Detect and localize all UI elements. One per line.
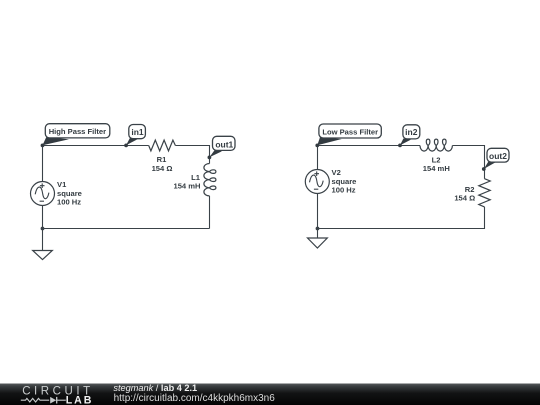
wire: V1 top lead vertical bbox=[42, 146, 44, 182]
svg-text:154 mH: 154 mH bbox=[423, 164, 450, 173]
logo diode bbox=[50, 397, 66, 404]
node flag: High Pass Filter bbox=[41, 124, 110, 148]
logo resistor zigzag bbox=[21, 398, 49, 402]
junction bottom-left (right circuit) bbox=[316, 227, 320, 231]
label L1 value bbox=[173, 173, 200, 190]
wire: L2 right lead to corner down to R2 bbox=[452, 146, 484, 179]
wire: V1 bottom lead bbox=[42, 206, 44, 229]
wire: bottom horizontal bbox=[43, 228, 210, 230]
resistor R1 bbox=[149, 140, 176, 151]
footer url text bbox=[114, 393, 276, 404]
svg-text:LAB: LAB bbox=[66, 395, 93, 405]
svg-text:in2: in2 bbox=[405, 127, 418, 137]
label V2 value bbox=[332, 168, 357, 194]
wire: V2 bottom lead bbox=[317, 194, 319, 229]
svg-text:out1: out1 bbox=[215, 139, 233, 149]
logo CIRCUIT wordmark bbox=[22, 386, 94, 398]
resistor R2 bbox=[479, 179, 490, 207]
svg-text:High Pass Filter: High Pass Filter bbox=[49, 127, 106, 136]
node flag: out2 bbox=[482, 148, 509, 171]
ground (left) bbox=[33, 229, 53, 260]
voltage source V1 bbox=[31, 182, 55, 206]
node flag: Low Pass Filter bbox=[315, 124, 381, 147]
label R2 value bbox=[454, 185, 475, 202]
svg-text:in1: in1 bbox=[131, 127, 144, 137]
svg-text:100 Hz: 100 Hz bbox=[57, 197, 81, 206]
wire: L1 bottom lead down bbox=[209, 196, 211, 229]
wire: V2 top lead vertical bbox=[317, 146, 319, 170]
svg-text:Low Pass Filter: Low Pass Filter bbox=[322, 127, 378, 136]
junction bottom-left bbox=[41, 227, 45, 231]
ground (right) bbox=[308, 229, 328, 249]
node flag: in1 bbox=[124, 125, 145, 148]
footer bar bbox=[0, 384, 540, 405]
label R1 value bbox=[152, 155, 173, 173]
svg-text:stegmank / lab 4 2.1: stegmank / lab 4 2.1 bbox=[113, 383, 197, 393]
svg-text:154 mH: 154 mH bbox=[173, 181, 200, 190]
footer title text bbox=[113, 383, 197, 393]
svg-text:154 Ω: 154 Ω bbox=[454, 193, 475, 202]
svg-text:100 Hz: 100 Hz bbox=[332, 185, 356, 194]
voltage source V2 bbox=[305, 170, 329, 194]
label V1 value bbox=[57, 180, 82, 206]
label L2 value bbox=[423, 155, 450, 173]
wire: R1 right lead to corner and down to L1 bbox=[175, 146, 209, 164]
logo LAB wordmark bbox=[66, 395, 93, 405]
inductor L1 bbox=[204, 164, 216, 196]
svg-text:L2: L2 bbox=[432, 155, 441, 164]
inductor L2 bbox=[420, 139, 452, 151]
svg-text:http://circuitlab.com/c4kkpkh6: http://circuitlab.com/c4kkpkh6mx3n6 bbox=[114, 393, 276, 404]
svg-text:R1: R1 bbox=[157, 155, 167, 164]
wire: R2 bottom lead down bbox=[318, 207, 485, 229]
svg-text:154 Ω: 154 Ω bbox=[152, 164, 173, 173]
wire: top horizontal to L2 bbox=[318, 145, 421, 147]
wire: top horizontal from node A to R1 left lead bbox=[43, 145, 149, 147]
node flag: out1 bbox=[208, 136, 236, 159]
svg-text:out2: out2 bbox=[489, 151, 507, 161]
node flag: in2 bbox=[398, 125, 420, 148]
